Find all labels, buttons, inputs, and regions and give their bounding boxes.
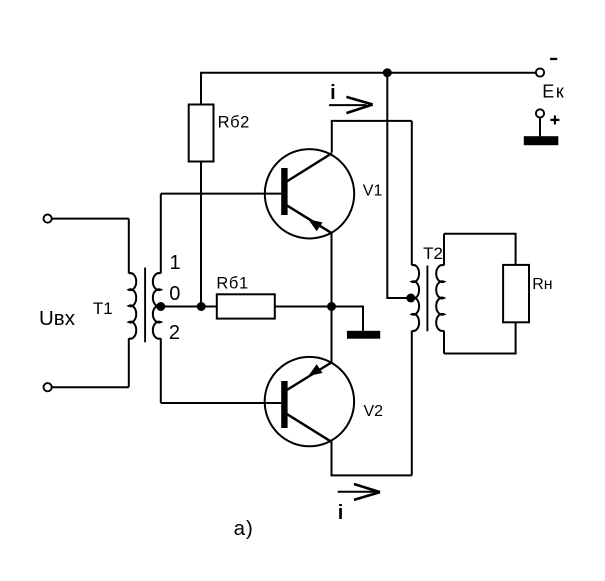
wire Rб2 bottom	[200, 162, 202, 307]
transformer T2	[412, 121, 444, 476]
wire V1 base	[161, 193, 281, 195]
svg-text:0: 0	[169, 283, 180, 305]
junction node T1 center tap	[156, 302, 165, 311]
svg-text:1: 1	[170, 252, 181, 274]
svg-text:V1: V1	[363, 183, 383, 200]
wire to ground	[332, 307, 364, 331]
resistor Rб2	[189, 105, 214, 162]
svg-text:2: 2	[169, 322, 180, 344]
svg-text:Rб2: Rб2	[218, 113, 250, 131]
wire V1 collector up	[332, 121, 412, 153]
svg-text:Rб1: Rб1	[216, 275, 248, 293]
wire input bottom	[52, 386, 129, 388]
wire load loop top	[444, 234, 516, 265]
resistor Rн	[503, 265, 529, 322]
ground bar	[347, 331, 380, 339]
input terminal top	[44, 215, 52, 223]
svg-text:T1: T1	[93, 299, 113, 318]
wire load loop bottom	[444, 322, 516, 353]
wire top +rail	[201, 73, 536, 105]
label plus	[550, 115, 559, 124]
junction node emitter	[327, 302, 336, 311]
wire battery stem	[539, 118, 541, 137]
junction node top rail	[383, 68, 392, 77]
svg-text:Rн: Rн	[532, 276, 552, 293]
wire input top	[52, 218, 129, 220]
battery minus terminal	[536, 68, 544, 76]
svg-text:V2: V2	[364, 403, 384, 420]
svg-text:a): a)	[234, 517, 254, 540]
input terminal bottom	[44, 383, 52, 391]
junction node bias	[197, 302, 206, 311]
battery ground bar	[524, 136, 559, 145]
label minus	[550, 58, 557, 60]
transistor V2	[265, 357, 354, 446]
wire V2 base	[161, 402, 281, 404]
wire Rб1 to emitter node	[275, 306, 332, 308]
svg-text:T2: T2	[423, 244, 443, 263]
svg-text:i: i	[330, 82, 336, 104]
wire Ek to T2 center tap	[387, 73, 412, 298]
svg-text:Uвх: Uвх	[39, 307, 76, 330]
current arrow i top	[329, 97, 373, 113]
transistor V1	[265, 149, 354, 238]
svg-text:Eк: Eк	[542, 82, 565, 102]
wire V2 collector down	[332, 442, 412, 475]
emitter rail	[331, 233, 333, 363]
battery plus terminal	[536, 109, 544, 117]
junction node T2 center tap	[406, 294, 415, 303]
svg-text:i: i	[338, 502, 344, 524]
transformer T1	[129, 194, 161, 403]
resistor Rб1	[217, 294, 275, 318]
current arrow i bottom	[338, 484, 380, 500]
wire T1 center tap to bias node	[161, 306, 217, 308]
